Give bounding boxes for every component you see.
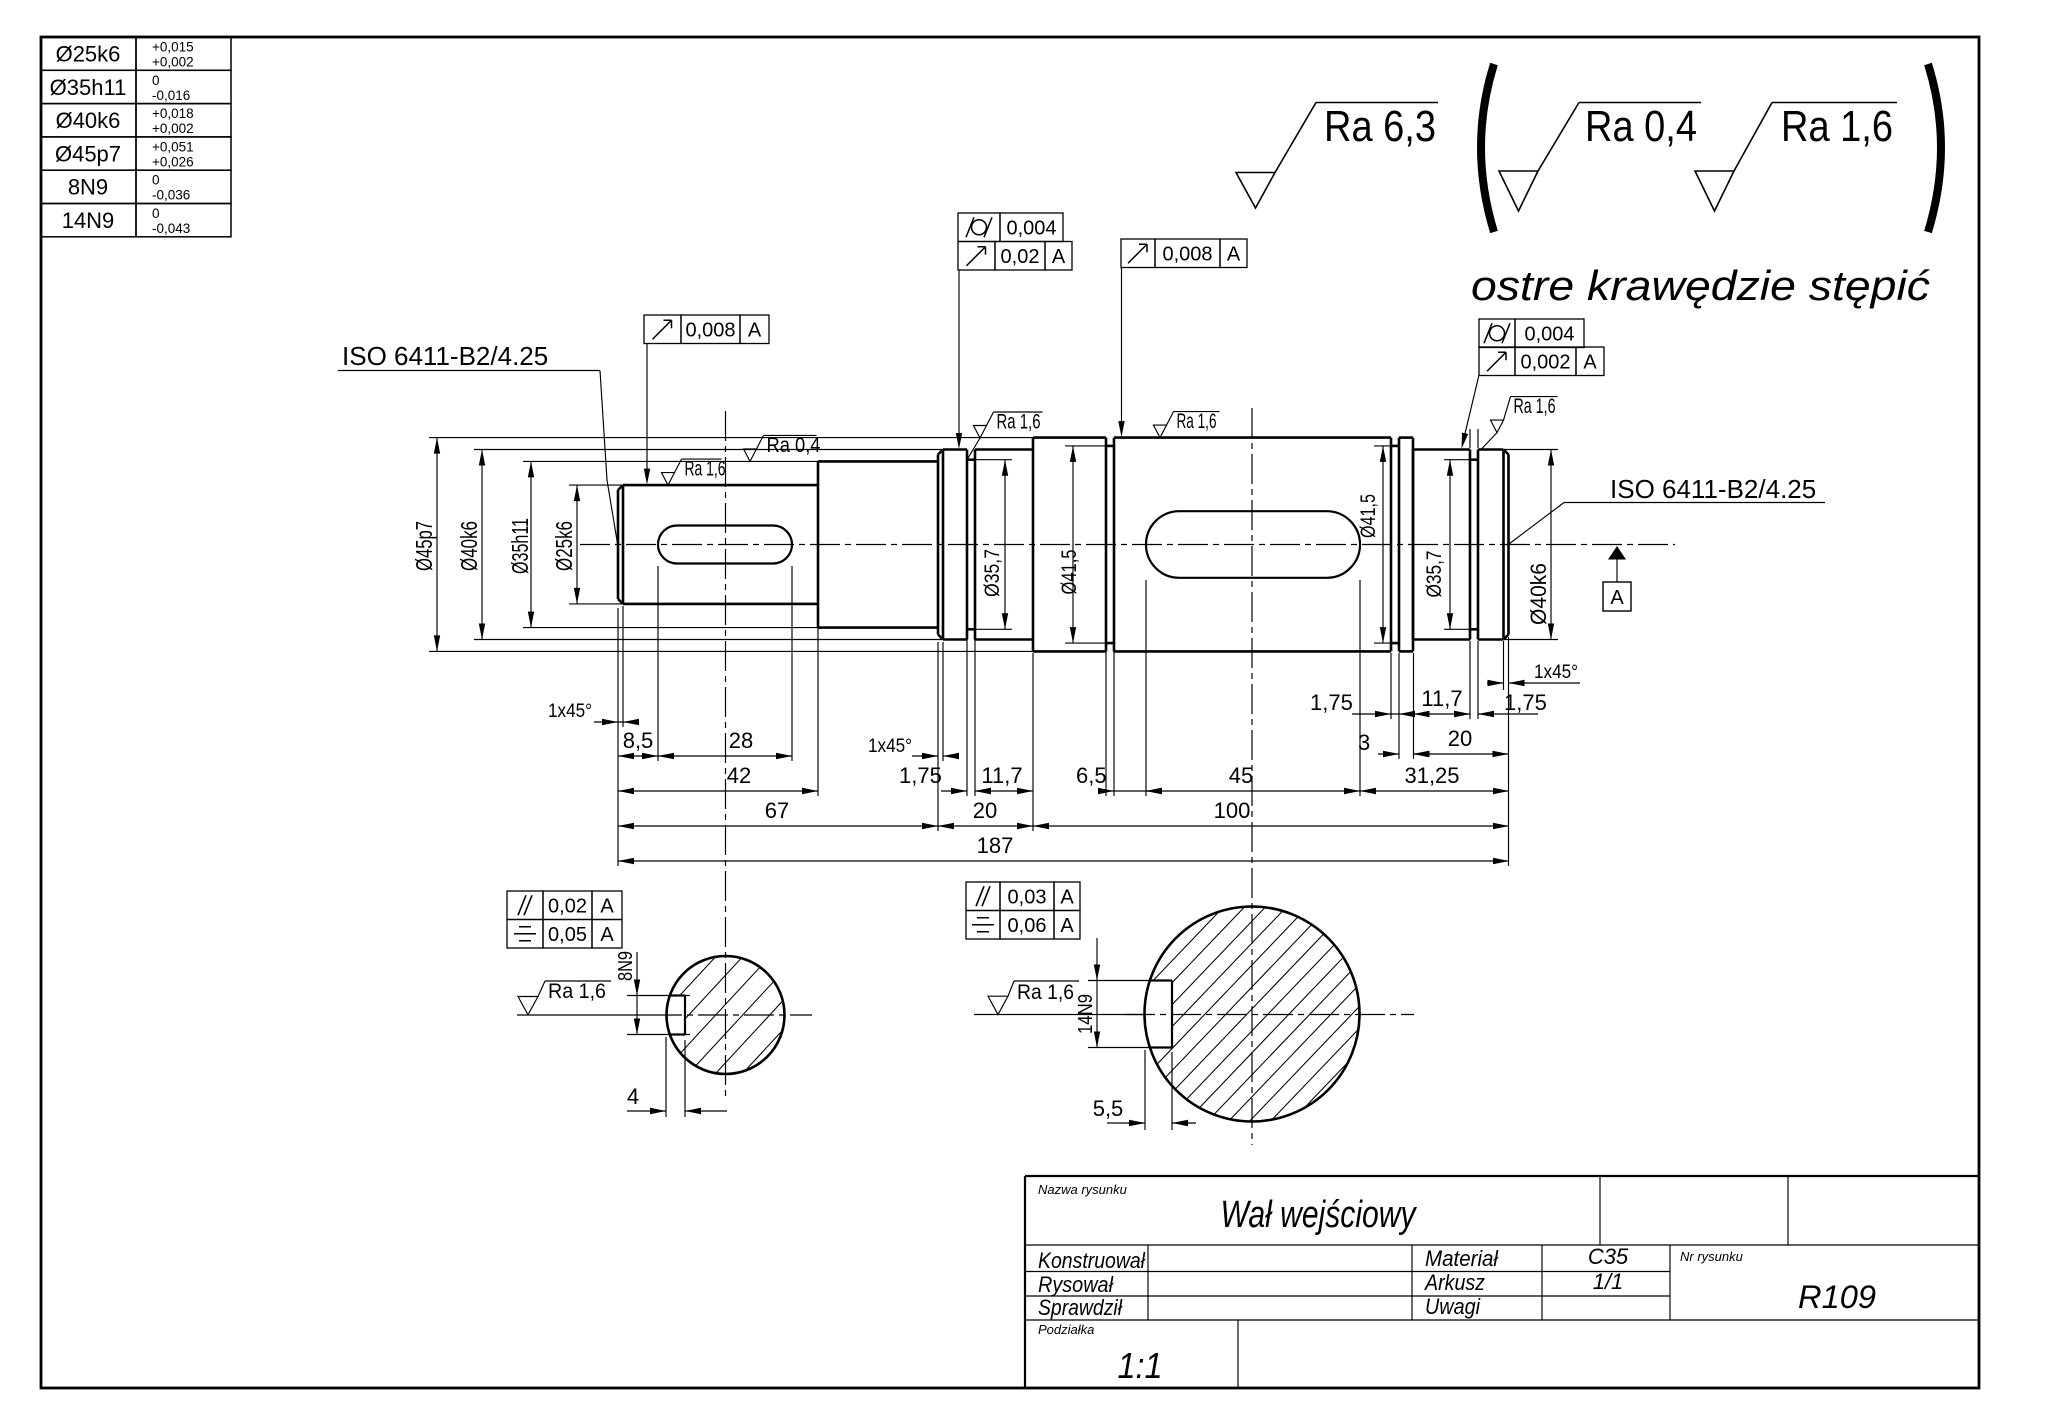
svg-text:8N9: 8N9 (68, 175, 108, 200)
svg-text:Nr rysunku: Nr rysunku (1680, 1249, 1743, 1264)
svg-text:Ø41,5: Ø41,5 (1357, 494, 1380, 538)
svg-text:Ø35,7: Ø35,7 (1423, 551, 1446, 598)
svg-text:A: A (1227, 243, 1241, 265)
svg-text:100: 100 (1214, 798, 1251, 823)
svg-text:Ø41,5: Ø41,5 (1058, 550, 1081, 595)
svg-text:Uwagi: Uwagi (1425, 1294, 1481, 1319)
svg-text:-0,016: -0,016 (152, 88, 190, 103)
svg-text:Rysował: Rysował (1038, 1272, 1114, 1297)
svg-text:1:1: 1:1 (1118, 1345, 1163, 1386)
svg-text:+0,018: +0,018 (152, 106, 194, 121)
svg-text:Sprawdził: Sprawdził (1038, 1295, 1123, 1320)
svg-text:Ø35h11: Ø35h11 (507, 518, 533, 574)
svg-text:0,03: 0,03 (1008, 886, 1047, 908)
svg-text:14N9: 14N9 (62, 208, 115, 233)
svg-text:0,008: 0,008 (1162, 243, 1212, 265)
svg-text:20: 20 (973, 798, 997, 823)
svg-text:1x45°: 1x45° (868, 736, 912, 757)
svg-text:0: 0 (152, 206, 160, 221)
svg-text:A: A (1060, 915, 1074, 937)
svg-text:Ra 1,6: Ra 1,6 (1017, 981, 1074, 1004)
svg-text:Arkusz: Arkusz (1423, 1270, 1485, 1295)
svg-text:Ra 0,4: Ra 0,4 (1585, 102, 1697, 151)
svg-text:3: 3 (1358, 730, 1370, 755)
svg-text:Ra 1,6: Ra 1,6 (685, 458, 726, 481)
svg-text:Konstruował: Konstruował (1038, 1248, 1146, 1273)
svg-text:+0,002: +0,002 (152, 121, 194, 136)
svg-text:Ø25k6: Ø25k6 (551, 521, 577, 571)
svg-text:Ø35,7: Ø35,7 (981, 549, 1004, 597)
svg-text:ISO 6411-B2/4.25: ISO 6411-B2/4.25 (342, 341, 548, 371)
svg-text:11,7: 11,7 (981, 763, 1022, 788)
svg-text:20: 20 (1448, 726, 1472, 751)
svg-text:+0,026: +0,026 (152, 154, 194, 169)
svg-text:A: A (600, 924, 614, 946)
svg-text:A: A (1060, 886, 1074, 908)
svg-text:187: 187 (977, 833, 1014, 858)
svg-text:1,75: 1,75 (1504, 690, 1547, 715)
svg-text:ISO 6411-B2/4.25: ISO 6411-B2/4.25 (1610, 474, 1816, 504)
svg-text:Ra 1,6: Ra 1,6 (1781, 102, 1893, 151)
svg-text:28: 28 (729, 728, 753, 753)
svg-text:Ra 0,4: Ra 0,4 (767, 434, 821, 457)
svg-text:1x45°: 1x45° (548, 701, 592, 722)
svg-text:0,004: 0,004 (1524, 323, 1574, 345)
svg-text:5,5: 5,5 (1093, 1096, 1124, 1121)
svg-text:R109: R109 (1798, 1279, 1876, 1315)
svg-text:Ø40k6: Ø40k6 (56, 108, 121, 133)
svg-text:0: 0 (152, 173, 160, 188)
svg-text:45: 45 (1229, 763, 1253, 788)
svg-text:C35: C35 (1588, 1244, 1629, 1269)
svg-text:Ø40k6: Ø40k6 (1526, 563, 1551, 625)
svg-text:Ra 1,6: Ra 1,6 (548, 980, 606, 1003)
svg-text:Ø40k6: Ø40k6 (456, 521, 482, 571)
svg-text:+0,051: +0,051 (152, 139, 194, 154)
svg-text:Ø45p7: Ø45p7 (55, 141, 121, 166)
svg-text:-0,036: -0,036 (152, 188, 190, 203)
svg-text:0,05: 0,05 (548, 924, 587, 946)
svg-text:A: A (748, 319, 762, 341)
svg-text:8N9: 8N9 (615, 951, 637, 981)
svg-text:6,5: 6,5 (1076, 763, 1107, 788)
svg-text:A: A (600, 895, 614, 917)
svg-text:Materiał: Materiał (1425, 1246, 1499, 1271)
svg-text:42: 42 (727, 763, 751, 788)
svg-text:A: A (1052, 246, 1066, 268)
svg-text:0,02: 0,02 (548, 895, 587, 917)
svg-text:A: A (1583, 351, 1597, 373)
svg-text:ostre krawędzie stępić: ostre krawędzie stępić (1471, 262, 1930, 309)
svg-text:4: 4 (627, 1084, 639, 1109)
svg-text:1x45°: 1x45° (1534, 662, 1578, 683)
svg-text:0,06: 0,06 (1008, 915, 1047, 937)
svg-text:Ø25k6: Ø25k6 (56, 42, 121, 67)
svg-text:Ra 1,6: Ra 1,6 (1177, 410, 1217, 433)
svg-text:1/1: 1/1 (1593, 1269, 1624, 1294)
svg-text:Podziałka: Podziałka (1038, 1322, 1094, 1337)
svg-text:0,02: 0,02 (1001, 246, 1040, 268)
svg-text:Ra 1,6: Ra 1,6 (997, 411, 1041, 434)
svg-text:0: 0 (152, 73, 160, 88)
svg-text:+0,002: +0,002 (152, 55, 194, 70)
svg-text:0,008: 0,008 (685, 319, 735, 341)
svg-text:Wał wejściowy: Wał wejściowy (1221, 1194, 1418, 1236)
svg-text:Ø35h11: Ø35h11 (50, 75, 127, 100)
svg-text:Ra 6,3: Ra 6,3 (1324, 102, 1436, 151)
svg-text:0,004: 0,004 (1006, 217, 1056, 239)
svg-text:1,75: 1,75 (899, 763, 942, 788)
svg-text:8,5: 8,5 (623, 728, 654, 753)
svg-text:Ø45p7: Ø45p7 (411, 521, 437, 571)
svg-text:67: 67 (765, 798, 789, 823)
svg-text:Nazwa rysunku: Nazwa rysunku (1038, 1182, 1127, 1197)
svg-text:Ra 1,6: Ra 1,6 (1514, 395, 1556, 418)
svg-text:31,25: 31,25 (1404, 763, 1459, 788)
svg-text:11,7: 11,7 (1421, 686, 1462, 711)
svg-text:1,75: 1,75 (1310, 690, 1353, 715)
svg-text:-0,043: -0,043 (152, 221, 190, 236)
svg-text:A: A (1610, 587, 1624, 609)
svg-text:0,002: 0,002 (1520, 351, 1570, 373)
svg-text:+0,015: +0,015 (152, 40, 194, 55)
